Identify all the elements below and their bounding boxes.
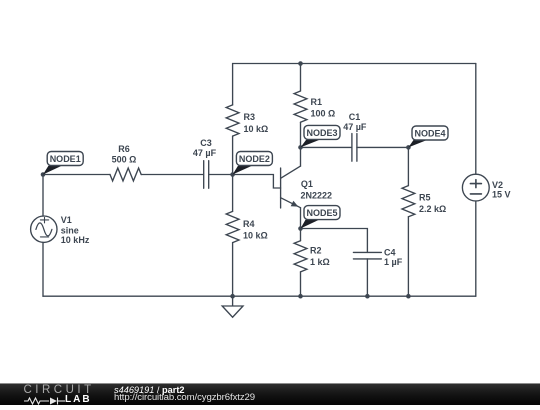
footer title text — [114, 385, 185, 395]
node NODE1 — [43, 152, 83, 175]
svg-text:sine: sine — [61, 226, 79, 236]
wire bottom rail — [43, 295, 476, 297]
wire base NODE2 to Q1 — [233, 175, 281, 189]
svg-text:100 Ω: 100 Ω — [311, 109, 336, 119]
junction node NODE3 — [298, 145, 303, 150]
resistor R6 — [110, 168, 141, 181]
voltage source V2 — [462, 174, 489, 201]
svg-text:NODE4: NODE4 — [414, 129, 445, 139]
CircuitLab logo wordmark — [24, 384, 95, 396]
junction ground rail R4 — [230, 294, 235, 299]
svg-text:R4: R4 — [243, 219, 255, 229]
footer url text — [114, 392, 255, 403]
node NODE2 — [233, 152, 273, 175]
wire R2 to bottom rail — [300, 272, 302, 296]
resistor R4 — [226, 211, 239, 242]
resistor R1 — [294, 91, 307, 122]
wire C1 to NODE4 — [357, 146, 409, 148]
junction ground rail C4 — [365, 294, 370, 299]
junction ground rail R5 — [406, 294, 411, 299]
wire NODE5 to R2 — [300, 229, 302, 241]
wire NODE1 to R6 — [43, 174, 110, 176]
svg-text:C3: C3 — [200, 138, 212, 148]
wire NODE5 to C4 — [301, 229, 368, 253]
node NODE3 — [301, 125, 341, 147]
svg-text:R1: R1 — [311, 97, 323, 107]
node NODE4 — [408, 126, 448, 147]
wire R3 to NODE2 — [232, 136, 234, 174]
wire top rail — [233, 63, 476, 65]
capacitor C4 — [353, 252, 381, 259]
junction ground rail R2 — [298, 294, 303, 299]
wire R5 to bottom rail — [407, 217, 409, 296]
svg-text:1 kΩ: 1 kΩ — [310, 257, 330, 267]
svg-text:Q1: Q1 — [301, 179, 313, 189]
wire V1 branch top — [42, 175, 44, 217]
svg-text:NODE1: NODE1 — [50, 154, 81, 164]
junction node NODE2 — [230, 172, 235, 177]
wire NODE2 to R4 — [232, 175, 234, 212]
svg-text:NODE2: NODE2 — [239, 154, 270, 164]
junction node NODE4 — [406, 145, 411, 150]
wire Q1 emitter to NODE5 — [300, 208, 302, 229]
svg-text:NODE3: NODE3 — [306, 128, 337, 138]
wire R6 to C3 — [141, 174, 203, 176]
svg-text:2.2 kΩ: 2.2 kΩ — [419, 204, 446, 214]
wire V2 branch top — [475, 64, 477, 175]
svg-text:R2: R2 — [310, 246, 322, 256]
wire V1 bottom — [42, 242, 44, 296]
svg-text:C1: C1 — [349, 112, 361, 122]
wire R3 branch top — [232, 64, 234, 105]
node NODE5 — [301, 206, 341, 229]
capacitor C1 — [352, 134, 357, 162]
svg-text:10 kHz: 10 kHz — [61, 235, 90, 245]
svg-text:NODE5: NODE5 — [306, 208, 337, 218]
junction top rail R1 — [298, 61, 303, 66]
svg-text:47 µF: 47 µF — [193, 148, 217, 158]
junction node NODE1 — [41, 172, 46, 177]
svg-text:R6: R6 — [118, 144, 130, 154]
resistor R5 — [402, 186, 415, 217]
svg-text:500 Ω: 500 Ω — [112, 155, 137, 165]
wire R1 to NODE3 — [300, 122, 302, 147]
wire NODE4 to R5 — [407, 147, 409, 185]
wire Q1 collector to NODE3 — [300, 147, 302, 166]
junction node NODE5 — [298, 226, 303, 231]
wire R4 to ground rail — [232, 243, 234, 297]
capacitor C3 — [204, 161, 209, 189]
CircuitLab logo resistor-diode glyph — [23, 395, 68, 407]
wire NODE3 to C1 — [301, 146, 352, 148]
resistor R2 — [294, 241, 307, 272]
svg-text:V1: V1 — [61, 215, 72, 225]
transistor Q1 — [281, 166, 301, 208]
svg-text:R5: R5 — [419, 193, 431, 203]
svg-text:10 kΩ: 10 kΩ — [244, 124, 269, 134]
svg-text:15 V: 15 V — [492, 190, 511, 200]
svg-text:10 kΩ: 10 kΩ — [243, 230, 268, 240]
svg-text:V2: V2 — [492, 180, 503, 190]
svg-text:1 µF: 1 µF — [384, 257, 403, 267]
wire C4 to bottom rail — [366, 259, 368, 296]
svg-text:47 µF: 47 µF — [343, 122, 367, 132]
voltage source V1 sine — [31, 216, 57, 242]
wire R1 branch top — [300, 64, 302, 92]
resistor R3 — [226, 105, 239, 136]
svg-text:2N2222: 2N2222 — [301, 191, 333, 201]
ground — [222, 296, 243, 317]
wire V2 bottom — [475, 201, 477, 296]
svg-text:R3: R3 — [244, 112, 256, 122]
wire C3 to NODE2 — [209, 174, 233, 176]
